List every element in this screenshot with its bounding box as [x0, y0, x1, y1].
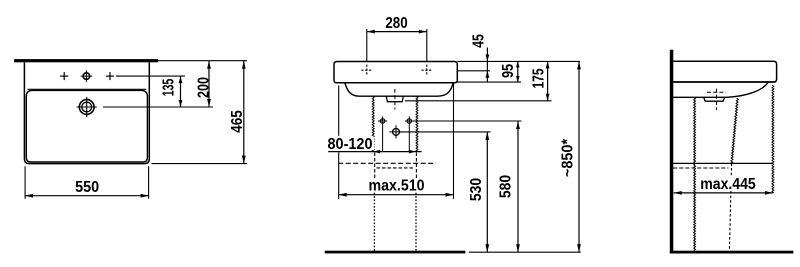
svg-text:135: 135 — [161, 78, 178, 96]
svg-text:45: 45 — [470, 34, 487, 48]
svg-text:~850*: ~850* — [559, 139, 576, 177]
svg-text:465: 465 — [229, 110, 246, 133]
svg-text:80-120: 80-120 — [328, 136, 373, 153]
svg-text:550: 550 — [75, 179, 99, 196]
svg-text:280: 280 — [385, 15, 407, 32]
svg-text:530: 530 — [468, 178, 485, 201]
svg-text:max.445: max.445 — [700, 176, 756, 193]
svg-text:200: 200 — [195, 77, 212, 98]
svg-text:580: 580 — [498, 175, 515, 198]
svg-text:175: 175 — [530, 68, 547, 88]
svg-text:95: 95 — [500, 64, 517, 79]
svg-text:max.510: max.510 — [369, 178, 425, 195]
